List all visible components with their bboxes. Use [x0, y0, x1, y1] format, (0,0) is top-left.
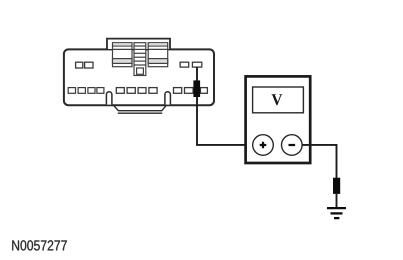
tab left latch block	[113, 43, 133, 67]
tab center latch column	[134, 43, 146, 76]
plus sign	[260, 142, 267, 149]
keying notch right arch	[165, 92, 171, 105]
top cavity row left: pin rectangles	[76, 62, 93, 68]
minus sign	[289, 144, 296, 146]
keying notch left arch	[106, 92, 112, 105]
tab right latch block	[148, 43, 168, 67]
voltmeter V label	[272, 94, 283, 105]
test probe black bar	[193, 80, 200, 97]
voltmeter body	[246, 76, 311, 163]
ground symbol line 1	[327, 207, 346, 209]
voltmeter display window	[253, 87, 304, 113]
voltmeter minus terminal	[282, 135, 303, 156]
top cavity row right: pin rectangles	[180, 62, 202, 67]
connector locking tab outline	[107, 39, 170, 49]
connector C1 body outline	[64, 49, 214, 105]
voltmeter plus terminal	[253, 135, 274, 156]
strap lower edge line	[118, 112, 162, 114]
bottom cavity row group 2	[116, 88, 157, 94]
wire from bar to ground	[336, 193, 338, 207]
part number label N0057277	[12, 240, 67, 250]
ground lead black bar	[333, 178, 340, 194]
wire from minus terminal to ground drop	[302, 145, 336, 179]
wire horizontal to voltmeter	[196, 144, 253, 146]
ground symbol line 2	[331, 212, 343, 214]
bottom cavity row group 3	[174, 88, 208, 94]
ground symbol line 3	[334, 217, 339, 219]
bottom cavity row group 1	[68, 88, 104, 94]
bottom strap handle	[113, 105, 167, 111]
wire from connector pin down	[196, 67, 198, 145]
